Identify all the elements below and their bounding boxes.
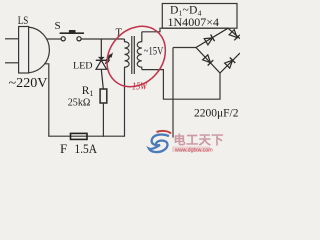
svg-text:www.dgtxw.com: www.dgtxw.com [175,147,213,153]
svg-text:25kΩ: 25kΩ [68,98,91,109]
wire: top-left edge [196,28,228,47]
resistor R1 [100,89,107,103]
wire: speaker lower-right drop [45,64,49,137]
wire: mains stub lower-left [5,62,19,64]
svg-text:LS: LS [18,15,29,27]
svg-text:F: F [60,141,67,156]
diode D4 (bottom-right edge) [224,57,235,68]
diode D1 (top-left edge) [204,35,215,46]
svg-text:1.5A: 1.5A [75,141,98,156]
transformer core [131,36,133,74]
svg-text:电工天下: 电工天下 [174,133,224,147]
watermark url [172,147,210,153]
watermark logo swirl [149,131,171,152]
wire: bottom-right edge [220,53,240,73]
wire: R1 to bottom rail [102,103,104,137]
svg-text:LED: LED [73,62,93,72]
svg-text:~220V: ~220V [9,76,48,91]
wire: bottom rail [49,135,125,137]
wire: bottom-left edge [196,48,220,74]
svg-text:~15V: ~15V [144,45,164,57]
wire: mains stub upper-left [5,38,19,40]
wire: negative output rail down [172,48,174,138]
fuse F [71,133,88,139]
transformer T primary winding [125,39,130,137]
wire: bridge left vertex to output rail [173,47,196,49]
diode D3 (top-right edge) [229,29,240,40]
LED indicator (anti-parallel) [96,39,107,89]
wire: secondary bottom to bridge bottom [142,70,220,100]
diode D2 (bottom-left edge) [202,55,213,66]
svg-text:1N4007×4: 1N4007×4 [168,15,220,29]
wire: top-right edge [228,28,240,39]
switch S [60,30,84,41]
wire: secondary top to bridge top [142,28,228,32]
LED arrows [105,54,112,64]
wire: switch to transformer primary [81,38,124,40]
svg-text:S: S [55,20,61,32]
transformer secondary winding [137,32,142,70]
red highlight ellipse [95,15,177,99]
svg-text:2200μF/2: 2200μF/2 [194,107,239,119]
wire: speaker top to switch [47,38,62,40]
loudspeaker LS [19,27,50,74]
bridge rectifier wires [196,28,240,73]
svg-text:15W: 15W [132,81,148,92]
label box D1~D4 1N4007x4 [162,4,237,29]
